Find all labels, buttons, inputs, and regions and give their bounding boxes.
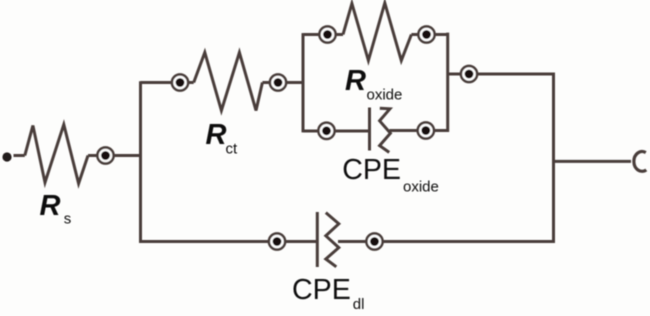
node D (circled junction before Roxide): [319, 26, 335, 42]
C terminal (open circle electrode): [634, 152, 646, 172]
right junction rail (vertical wire): [552, 73, 555, 243]
label Rct: [206, 119, 239, 158]
svg-text:R: R: [40, 190, 61, 222]
wire node E to box top-right corner: [432, 33, 449, 36]
wire CPEdl to node J: [338, 240, 368, 243]
node F (circled junction before CPEoxide): [318, 123, 334, 139]
wire from Rs to node A: [88, 154, 99, 157]
wire from input terminal to Rs: [14, 154, 25, 157]
svg-text:oxide: oxide: [367, 87, 403, 104]
wire CPEoxide to node G: [390, 129, 421, 132]
parallel box right edge (vertical wire): [446, 33, 449, 132]
svg-text:CPE: CPE: [292, 274, 351, 306]
wire from node A to left junction rail: [112, 154, 142, 157]
svg-text:oxide: oxide: [403, 179, 439, 196]
label Rs: [40, 190, 72, 228]
wire node F to CPEoxide plate: [333, 130, 368, 133]
node I (circled junction before CPEdl): [269, 233, 285, 249]
left junction rail (vertical wire): [139, 81, 142, 243]
svg-text:CPE: CPE: [342, 154, 401, 186]
svg-text:s: s: [64, 211, 72, 228]
wire box output to node H: [448, 73, 463, 76]
wire node I to CPEdl plate: [283, 240, 316, 243]
svg-text:dl: dl: [353, 296, 365, 313]
label Roxide: [345, 65, 402, 104]
CPEdl plate (vertical line): [316, 212, 319, 267]
wire from node C to parallel box left edge: [284, 81, 304, 84]
label CPEdl: [292, 274, 364, 313]
svg-text:R: R: [345, 65, 366, 97]
wire Roxide to node E: [411, 33, 421, 36]
label CPEoxide: [342, 154, 439, 195]
node J (circled junction after CPEdl): [366, 233, 382, 249]
wire node G to box bottom-right corner: [432, 129, 449, 132]
svg-text:R: R: [206, 119, 227, 151]
parallel box left edge (vertical wire): [302, 33, 305, 132]
resistor Rs zigzag: [25, 125, 88, 184]
resistor Roxide zigzag: [343, 3, 411, 61]
node C (circled junction after Rct): [270, 74, 286, 90]
bottom branch wire from left rail to node I: [139, 240, 271, 243]
node B (circled junction before Rct): [172, 74, 188, 90]
node E (circled junction after Roxide): [418, 26, 434, 42]
wire node D to Roxide: [334, 33, 343, 36]
CPEoxide zigzag element: [380, 108, 391, 152]
wire box top-left corner to node D: [303, 33, 322, 36]
wire node B to Rct: [186, 81, 194, 84]
wire box bottom-left corner to node F: [303, 130, 321, 133]
resistor Rct zigzag: [194, 53, 263, 111]
wire node J to right rail: [381, 240, 555, 243]
terminal dot (left input): [2, 152, 11, 161]
svg-text:ct: ct: [226, 141, 239, 158]
node G (circled junction after CPEoxide): [418, 122, 434, 138]
wire from Rct to node C: [262, 81, 272, 84]
node H (circled junction after parallel box): [461, 66, 477, 82]
CPEoxide plate (vertical line): [368, 108, 371, 151]
wire from left rail to node B: [141, 81, 175, 84]
wire node H to right rail: [475, 73, 555, 76]
output wire from right rail to C terminal: [554, 160, 632, 163]
node A (circled junction after Rs): [97, 147, 113, 163]
CPEdl zigzag element: [326, 213, 339, 267]
